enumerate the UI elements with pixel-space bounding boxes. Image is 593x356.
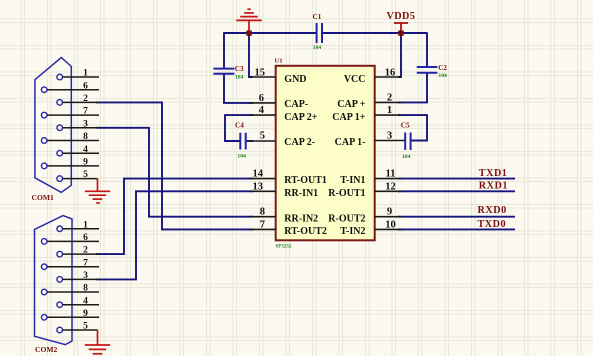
COM1 pin 2	[57, 94, 99, 105]
wire: C3 bottom plate down to pin6 row	[224, 74, 253, 103]
connector COM2 body (DB9)	[35, 216, 73, 345]
U1 pin 13 (RR-IN1)	[250, 181, 319, 199]
ground (COM1 pin 5)	[85, 179, 110, 203]
svg-text:1: 1	[83, 220, 88, 230]
svg-text:10: 10	[385, 219, 396, 230]
connector COM1 body (DB9)	[35, 58, 71, 193]
svg-text:104: 104	[402, 154, 411, 160]
COM1 pin 6	[41, 81, 99, 92]
U1 pin 7 (RT-OUT2)	[250, 219, 327, 237]
wire: U1 pin 12 to RXD1	[398, 190, 515, 192]
svg-text:T-IN1: T-IN1	[340, 175, 365, 186]
wire: U1 pin 10 to TXD0	[398, 228, 515, 230]
svg-text:5: 5	[260, 130, 265, 141]
wire: C2 branch top	[426, 32, 428, 66]
svg-text:CAP 2-: CAP 2-	[284, 137, 315, 148]
svg-text:4: 4	[83, 145, 88, 155]
svg-text:6: 6	[83, 81, 88, 91]
svg-text:3: 3	[83, 271, 88, 281]
svg-text:13: 13	[253, 181, 264, 192]
ground (top, inverted bars)	[236, 9, 261, 33]
svg-text:RR-IN1: RR-IN1	[284, 188, 318, 199]
svg-text:TXD1: TXD1	[479, 168, 508, 179]
U1 pin 10 (T-IN2)	[340, 219, 402, 237]
svg-text:7: 7	[260, 219, 265, 230]
svg-text:CAP 1-: CAP 1-	[335, 137, 366, 148]
wire: C2 bottom plate to U1 pin 2	[398, 73, 427, 102]
svg-text:11: 11	[386, 169, 396, 180]
svg-text:9: 9	[387, 207, 392, 218]
svg-text:4: 4	[259, 105, 265, 116]
COM1 pin 9	[41, 158, 99, 169]
svg-text:2: 2	[83, 246, 88, 256]
svg-text:R-OUT2: R-OUT2	[328, 213, 365, 224]
svg-text:7: 7	[83, 258, 88, 268]
capacitor C5	[401, 122, 411, 160]
capacitor C2	[417, 64, 448, 79]
wire: U1 pin 13 to COM2 pin 3	[96, 191, 253, 279]
wire: U1 pin 14 to COM2 pin 2	[96, 179, 253, 255]
svg-text:1: 1	[83, 69, 88, 79]
COM1 pin 5	[57, 170, 98, 181]
U1 pin 6 (CAP-)	[250, 93, 309, 110]
svg-text:CAP-: CAP-	[284, 99, 308, 110]
wire: U1 pin 11 to TXD1	[398, 178, 515, 180]
U1 pin 2 (CAP +)	[337, 92, 401, 110]
COM2 pin 5	[57, 322, 98, 333]
wire: U1 pin 7 to COM1 pin 2	[96, 102, 253, 229]
svg-text:COM2: COM2	[35, 345, 58, 354]
svg-text:RXD0: RXD0	[478, 205, 507, 216]
capacitor C4	[235, 122, 246, 160]
svg-text:9: 9	[83, 158, 88, 168]
svg-text:104: 104	[438, 73, 447, 79]
svg-text:C5: C5	[401, 122, 410, 130]
ground (COM2 pin 5)	[85, 330, 110, 354]
svg-text:T-IN2: T-IN2	[340, 226, 365, 237]
svg-text:SP3232: SP3232	[276, 244, 292, 249]
wire: U1 pin 1 loop to C5 right plate	[398, 115, 427, 140]
svg-text:6: 6	[83, 233, 88, 243]
svg-text:VCC: VCC	[344, 74, 366, 85]
svg-text:7: 7	[83, 107, 88, 117]
svg-text:CAP 1+: CAP 1+	[332, 112, 366, 123]
U1 pin 3 (CAP 1-)	[335, 130, 405, 148]
wire: C4 right plate to U1 pin 5	[246, 140, 253, 142]
wire: left branch down to C3 top plate	[223, 32, 225, 68]
capacitor C3	[213, 65, 244, 80]
power VDD5 symbol	[394, 23, 408, 33]
op-amp U1 body (RS-232 transceiver)	[276, 66, 375, 241]
COM2 pin 7	[41, 258, 99, 269]
svg-text:C3: C3	[235, 65, 244, 73]
svg-text:5: 5	[83, 170, 88, 180]
U1 pin 12 (R-OUT1)	[328, 181, 402, 199]
junction: GND rail	[246, 30, 251, 35]
svg-text:C4: C4	[235, 122, 244, 130]
svg-text:5: 5	[83, 322, 88, 332]
U1 pin 4 (CAP 2+)	[250, 105, 318, 123]
capacitor C1	[313, 13, 323, 51]
U1 pin 14 (RT-OUT1)	[250, 169, 327, 187]
U1 pin 11 (T-IN1)	[340, 169, 402, 187]
COM1 pin 3	[57, 119, 99, 130]
COM1 pin 8	[41, 132, 99, 143]
wire: VDD5 junction down to U1 pin 16	[398, 33, 401, 77]
svg-text:GND: GND	[284, 74, 306, 85]
COM1 pin 4	[57, 145, 99, 156]
COM2 pin 8	[41, 284, 99, 295]
U1 pin 8 (RR-IN2)	[250, 207, 319, 225]
svg-text:12: 12	[385, 181, 396, 192]
svg-text:104: 104	[237, 153, 246, 159]
svg-text:8: 8	[83, 284, 88, 294]
COM1 pin 7	[41, 107, 99, 118]
svg-text:3: 3	[83, 119, 88, 129]
svg-text:9: 9	[83, 309, 88, 319]
svg-text:CAP +: CAP +	[337, 99, 366, 110]
svg-text:R-OUT1: R-OUT1	[328, 188, 365, 199]
COM1 pin 1	[57, 69, 99, 80]
svg-text:RXD1: RXD1	[479, 181, 508, 192]
svg-text:3: 3	[387, 130, 392, 141]
COM2 pin 1	[57, 220, 99, 231]
svg-text:6: 6	[259, 93, 264, 104]
svg-text:104: 104	[313, 45, 322, 51]
COM2 pin 9	[41, 309, 99, 320]
U1 pin 5 (CAP 2-)	[250, 130, 316, 148]
COM2 pin 3	[57, 271, 99, 282]
svg-text:TXD0: TXD0	[478, 219, 507, 230]
svg-text:8: 8	[260, 207, 265, 218]
svg-text:U1: U1	[275, 58, 283, 65]
junction: VDD5 rail	[398, 30, 403, 35]
svg-text:2: 2	[83, 94, 88, 104]
wire: U1 pin 8 to COM1 pin 3	[96, 128, 253, 217]
svg-text:104: 104	[235, 74, 244, 80]
COM2 pin 6	[41, 233, 99, 244]
svg-text:14: 14	[253, 169, 264, 180]
wire: U1 pin 9 to RXD0	[398, 216, 515, 218]
U1 pin 9 (R-OUT2)	[328, 207, 402, 225]
svg-text:2: 2	[387, 92, 392, 103]
svg-text:C2: C2	[438, 64, 447, 72]
svg-text:RT-OUT1: RT-OUT1	[284, 175, 327, 186]
svg-text:CAP 2+: CAP 2+	[284, 112, 318, 123]
svg-text:16: 16	[385, 67, 396, 78]
svg-text:VDD5: VDD5	[387, 11, 416, 22]
COM2 pin 2	[57, 246, 99, 257]
svg-text:15: 15	[255, 67, 266, 78]
svg-text:RR-IN2: RR-IN2	[284, 213, 318, 224]
wire: top rail y=33 (right of C1 to C2 branch)	[323, 32, 427, 34]
svg-text:1: 1	[387, 105, 392, 116]
U1 pin 15 (GND)	[250, 67, 307, 84]
wire: C4 loop (pin4 corner down to C4 left plate)	[225, 115, 253, 141]
U1 pin 16 (VCC)	[344, 67, 402, 84]
wire: ground junction down to U1 pin 15	[249, 33, 253, 77]
svg-text:RT-OUT2: RT-OUT2	[284, 226, 327, 237]
svg-text:COM1: COM1	[32, 193, 55, 202]
U1 pin 1 (CAP 1+)	[332, 105, 401, 123]
svg-text:C1: C1	[313, 13, 322, 21]
svg-text:8: 8	[83, 132, 88, 142]
COM2 pin 4	[57, 296, 99, 307]
wire: top GND/VCC rail y=33 (left of C1)	[224, 32, 316, 34]
svg-text:4: 4	[83, 296, 88, 306]
